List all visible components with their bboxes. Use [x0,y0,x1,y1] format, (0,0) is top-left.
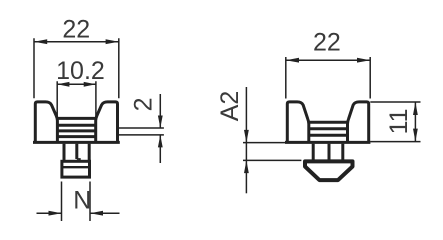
svg-text:22: 22 [62,16,90,44]
right view stem left edge [312,144,315,160]
dim 11: dimension line [414,102,416,142]
dim 2: dimension line [159,94,161,163]
right view serration top boundary [309,121,348,124]
left view body bottom line [33,141,120,144]
dim 2: extension lines [119,128,164,135]
dim 10.2: extension lines [57,81,96,117]
right view body bottom line [285,141,370,144]
left view serration line 1 [57,124,96,127]
dim 22 right: arrows [286,58,370,63]
dim A2: dimension line [245,87,247,193]
dim N: dimension line [37,212,120,214]
dim A2: arrows [244,130,249,173]
svg-text:22: 22 [313,29,341,57]
dim 10.2: arrows [57,82,96,87]
dim 22 left: arrows [34,39,119,44]
right view body outline [287,102,368,142]
svg-text:11: 11 [385,108,413,134]
left view serration top boundary [57,117,96,120]
dim 22 right: extension lines [286,57,370,99]
right view serration line 1 [309,127,348,130]
right view foot dovetail [305,161,353,180]
svg-text:2: 2 [130,97,158,111]
left view serration line 3 [57,135,96,138]
dim A2: extension lines [243,143,302,161]
left view foot box [62,161,90,177]
dim N: extension lines [62,182,91,222]
left view stem left edge [63,144,66,161]
dim 22 left: dimension line [34,41,119,43]
right view serration line 2 [309,134,348,137]
left view foot inner line [62,166,90,168]
right view stem right edge [341,144,344,160]
left view stem right edge [88,144,91,161]
dim 22 left: extension lines [34,38,119,98]
left view stem step [77,159,80,161]
dim 22 right: dimension line [286,59,370,61]
right view stem middle line [328,144,331,160]
dim N: arrows [49,211,104,216]
dim 2: arrows [158,116,163,148]
svg-text:N: N [73,187,91,215]
dim 11: arrows [413,102,418,142]
svg-text:10.2: 10.2 [56,57,105,85]
svg-text:A2: A2 [216,91,244,122]
dim 10.2: dimension line [57,83,96,85]
left view serration line 2 [57,129,96,132]
left view body outline [35,102,117,142]
left view stem middle line [75,144,78,159]
dim 11: extension lines [370,102,420,142]
